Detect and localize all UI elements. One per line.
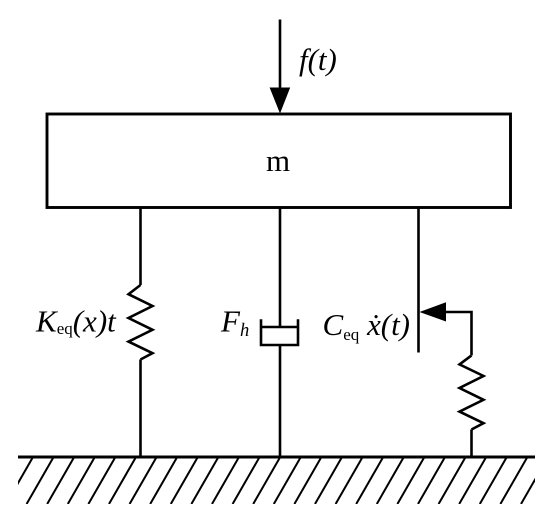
arrowhead of force arrow <box>270 88 291 114</box>
svg-text:Ceq ẋ(t): Ceq ẋ(t) <box>323 307 411 344</box>
spring K (left) <box>129 285 153 360</box>
wire right lower (spring to ground) <box>470 430 473 458</box>
friction element cup <box>261 319 298 345</box>
arrowhead pointing left at right wire <box>420 302 447 321</box>
wire middle lower (friction element to ground) <box>279 345 282 457</box>
ground line <box>18 456 535 459</box>
ground hatching <box>0 457 548 504</box>
friction element Fh piston plate <box>261 326 298 329</box>
wire middle (rect bottom to friction element) <box>279 208 282 328</box>
mass block m <box>47 114 511 208</box>
svg-text:f(t): f(t) <box>299 42 337 77</box>
svg-text:m: m <box>266 143 290 178</box>
svg-text:Keq(x)t: Keq(x)t <box>35 304 117 339</box>
force arrow f(t) <box>279 20 282 93</box>
spring right <box>460 355 484 429</box>
svg-text:Fh: Fh <box>220 303 249 341</box>
wire right (rect bottom down) <box>417 208 420 353</box>
wire horizontal and right vertical (arrow to spring top) <box>442 312 472 355</box>
wire left lower (spring to ground) <box>139 360 142 458</box>
wire left (rect bottom to spring top) <box>139 208 142 286</box>
